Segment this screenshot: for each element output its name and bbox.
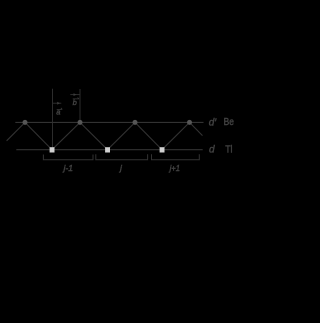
svg-text:Tl: Tl	[225, 144, 232, 155]
svg-text:d′: d′	[209, 118, 218, 129]
svg-text:d: d	[209, 144, 215, 155]
svg-text:j-1: j-1	[62, 163, 73, 173]
svg-text:b: b	[73, 98, 77, 107]
svg-text:Be: Be	[224, 117, 235, 128]
svg-text:j+1: j+1	[169, 163, 181, 173]
svg-text:a: a	[56, 107, 60, 116]
